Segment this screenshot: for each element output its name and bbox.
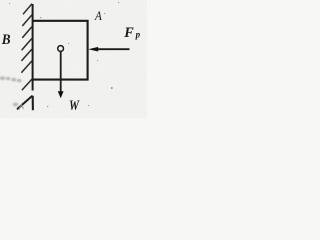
scan smudge left (blurred bleed-through text) bbox=[0, 77, 21, 107]
svg-text:F: F bbox=[123, 25, 134, 41]
svg-text:A: A bbox=[94, 8, 102, 23]
wall line lower stub bbox=[32, 96, 34, 110]
wall hatching bbox=[22, 4, 33, 90]
svg-text:B: B bbox=[1, 32, 11, 48]
svg-text:p: p bbox=[135, 29, 141, 39]
svg-text:W: W bbox=[69, 98, 80, 114]
scattered scan specks bbox=[9, 2, 119, 107]
wall B vertical line bbox=[32, 4, 34, 91]
block (square against wall) bbox=[32, 21, 88, 80]
force Fp arrowhead bbox=[88, 47, 98, 52]
weight arrowhead bbox=[58, 91, 64, 98]
paper background bbox=[0, 0, 147, 118]
force Fp arrow shaft bbox=[97, 48, 130, 50]
weight arrow W shaft bbox=[60, 52, 62, 93]
center pin circle bbox=[58, 46, 64, 52]
bottom check mark diagonal bbox=[18, 96, 32, 109]
pencil smudge near mark bbox=[19, 105, 24, 110]
